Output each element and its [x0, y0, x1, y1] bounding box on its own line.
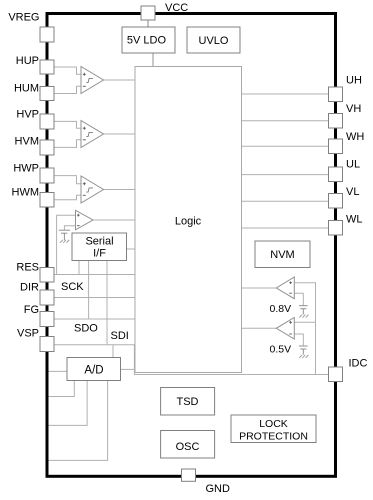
- svg-text:GND: GND: [206, 483, 231, 495]
- wire Logic to UL: [242, 174, 329, 176]
- wire Logic to WL: [242, 227, 329, 229]
- wire HVP to comparator: [55, 121, 82, 128]
- svg-text:5V LDO: 5V LDO: [127, 35, 167, 47]
- pin UH: [329, 87, 343, 102]
- svg-text:OSC: OSC: [176, 441, 200, 453]
- block UVLO: [187, 27, 240, 53]
- wire A/D ground 2: [49, 381, 88, 426]
- wire Logic to VH: [242, 120, 329, 122]
- svg-text:HVM: HVM: [15, 136, 39, 148]
- pin GND: [182, 469, 196, 481]
- chip outline: [47, 14, 336, 477]
- svg-text:VREG: VREG: [8, 12, 39, 24]
- op-amp hall comparator W: [81, 176, 104, 203]
- svg-text:FG: FG: [24, 304, 39, 316]
- ground at 0.8V comparator: [299, 315, 308, 318]
- wire comparator 0.8V output to Logic: [242, 287, 277, 289]
- wire VCC to 5V LDO: [147, 20, 149, 27]
- svg-text:UH: UH: [346, 75, 362, 87]
- svg-text:HWP: HWP: [13, 163, 39, 175]
- wire comparator W to Logic: [104, 189, 136, 191]
- pin UL: [329, 167, 343, 182]
- svg-text:WL: WL: [346, 214, 363, 226]
- svg-text:Serial: Serial: [85, 236, 113, 248]
- block A/D: [67, 358, 121, 381]
- wire RES to Logic: [55, 274, 136, 276]
- svg-text:IDC: IDC: [349, 358, 368, 370]
- svg-text:SDO: SDO: [74, 323, 98, 335]
- op-amp comparator 0.8V: [276, 277, 294, 299]
- pin FG: [40, 312, 54, 327]
- wire HWM to comparator: [55, 195, 82, 200]
- svg-text:TSD: TSD: [177, 396, 199, 408]
- capacitor at 0.5V comparator: [299, 346, 308, 355]
- svg-text:0.8V: 0.8V: [270, 303, 292, 315]
- op-amp VSP comparator: [76, 210, 94, 230]
- block NVM: [255, 241, 310, 268]
- pin VREG: [40, 27, 54, 42]
- svg-text:SCK: SCK: [61, 281, 84, 293]
- svg-text:SDI: SDI: [111, 330, 129, 342]
- block TSD: [161, 388, 215, 416]
- svg-text:DIR: DIR: [20, 282, 39, 294]
- svg-text:VL: VL: [346, 186, 359, 198]
- wire VSP net to A/D: [112, 345, 114, 358]
- pin HVP: [40, 114, 54, 129]
- ground at 0.5V comparator: [299, 355, 308, 358]
- wire FG SDO to Logic: [55, 318, 136, 320]
- svg-text:0.5V: 0.5V: [270, 344, 292, 356]
- wire Serial IF to Logic: [127, 248, 136, 250]
- wire comparator 0.5V output to Logic: [242, 327, 277, 329]
- capacitor at 0.8V comparator: [299, 306, 308, 315]
- wire comparator VSP output to Logic: [93, 219, 135, 221]
- svg-text:PROTECTION: PROTECTION: [239, 431, 308, 443]
- svg-text:NVM: NVM: [270, 249, 294, 261]
- wire Serial IF to RES net: [78, 261, 80, 275]
- svg-text:HUM: HUM: [14, 83, 39, 95]
- wire Logic to WH: [242, 145, 329, 147]
- block Logic: [135, 67, 242, 373]
- op-amp comparator 0.5V: [276, 318, 294, 340]
- wire comparator 0.5V minus to capacitor: [294, 334, 303, 346]
- wire A/D to Logic: [121, 368, 135, 370]
- op-amp hall comparator U: [81, 67, 104, 94]
- ground at VSP comparator: [60, 240, 69, 243]
- block 5V LDO: [122, 27, 175, 53]
- wire HUP to comparator: [55, 67, 82, 74]
- svg-text:VSP: VSP: [17, 328, 39, 340]
- pin VH: [329, 114, 343, 129]
- block LOCK PROTECTION: [231, 415, 316, 443]
- wire Serial IF to SDO net: [88, 261, 90, 320]
- svg-text:UL: UL: [346, 159, 360, 171]
- wire VSP comparator plus input to RES net: [57, 215, 76, 274]
- wire IDC sense rail: [294, 283, 315, 375]
- svg-text:Logic: Logic: [175, 216, 202, 228]
- svg-text:VH: VH: [346, 103, 361, 115]
- capacitor at VSP comparator: [59, 230, 70, 240]
- wire comparator V to Logic: [104, 133, 136, 135]
- pin RES: [40, 268, 54, 283]
- wire comparator U to Logic: [104, 79, 136, 81]
- svg-text:LOCK: LOCK: [259, 418, 288, 430]
- wire HWP to comparator: [55, 176, 82, 184]
- svg-text:HVP: HVP: [16, 109, 39, 121]
- pin HWM: [40, 193, 54, 208]
- pin HWP: [40, 168, 54, 183]
- svg-text:I/F: I/F: [93, 248, 106, 260]
- svg-text:WH: WH: [346, 131, 364, 143]
- wire A/D ground 1: [49, 381, 75, 397]
- pin VSP: [40, 337, 54, 352]
- wire HVM to comparator: [55, 140, 82, 148]
- wire Logic to VL: [242, 200, 329, 202]
- wire A/D ground 3: [49, 381, 108, 461]
- wire VSP SDI: [55, 345, 329, 375]
- wire comparator 0.8V minus to capacitor: [294, 293, 303, 306]
- pin HVM: [40, 140, 54, 155]
- block Serial I/F: [72, 233, 127, 261]
- op-amp hall comparator V: [81, 121, 104, 148]
- wire DIR SCK to Logic: [55, 297, 136, 299]
- svg-text:HUP: HUP: [16, 55, 39, 67]
- svg-text:HWM: HWM: [12, 187, 40, 199]
- pin HUP: [40, 60, 54, 74]
- svg-text:VCC: VCC: [165, 2, 188, 14]
- wire Serial IF to SDI net: [106, 261, 108, 345]
- svg-text:UVLO: UVLO: [199, 35, 229, 47]
- pin DIR: [40, 290, 54, 305]
- wire comparator 0.5V plus input: [294, 321, 315, 323]
- pin VCC: [141, 6, 155, 20]
- wire 5V LDO to Logic: [152, 53, 154, 67]
- wire left border to A/D: [49, 370, 68, 372]
- svg-text:A/D: A/D: [84, 365, 103, 377]
- wire Logic to UH: [242, 93, 329, 95]
- svg-text:RES: RES: [16, 262, 39, 274]
- pin IDC: [329, 367, 343, 382]
- pin VL: [329, 194, 343, 209]
- wire HUM to comparator: [55, 86, 82, 93]
- wire comparator minus input to capacitor: [64, 226, 75, 231]
- pin WH: [329, 139, 343, 154]
- pin WL: [329, 221, 343, 236]
- block OSC: [161, 431, 215, 459]
- pin HUM: [40, 87, 54, 101]
